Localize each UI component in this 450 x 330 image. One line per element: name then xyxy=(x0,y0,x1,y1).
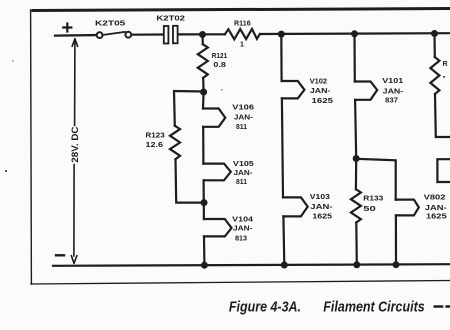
wire V104 to bottom bus xyxy=(203,236,206,265)
relay contact K2T05 xyxy=(95,21,131,38)
svg-text:JAN-: JAN- xyxy=(310,204,333,211)
wire V101 to junction xyxy=(355,100,356,159)
node - (negative terminal) xyxy=(56,254,64,256)
scan speckles xyxy=(5,60,445,172)
node junction V104 column bottom xyxy=(201,262,208,269)
tube filament V101 JAN-837 xyxy=(355,82,377,100)
node junction top of R121 xyxy=(199,31,206,38)
wire junction to R133 xyxy=(355,159,358,190)
wire V101 column top xyxy=(353,34,355,82)
svg-text:811: 811 xyxy=(236,124,247,131)
resistor R133 value 50 xyxy=(351,189,384,222)
svg-text:V106: V106 xyxy=(232,105,254,112)
svg-text:K2T05: K2T05 xyxy=(95,21,125,28)
node + (positive 28V terminal) xyxy=(63,24,71,32)
svg-text:JAN-: JAN- xyxy=(234,170,254,177)
annotation arrow 28V DC xyxy=(71,39,77,263)
wire R133 to bottom bus xyxy=(355,223,358,265)
svg-text:V104: V104 xyxy=(232,217,253,224)
svg-text:1625: 1625 xyxy=(312,98,334,105)
resistor R (partially cut off) xyxy=(430,57,447,94)
wire top bus left segment xyxy=(55,34,96,37)
tube filament V103 JAN-1625 xyxy=(283,197,308,216)
wire V102 to V103 xyxy=(282,98,283,197)
svg-text:K2T02: K2T02 xyxy=(156,16,185,23)
node junction below V105 xyxy=(201,199,208,206)
wire V105 to V104 xyxy=(203,180,205,219)
svg-text:V802: V802 xyxy=(424,194,446,201)
svg-text:1625: 1625 xyxy=(426,214,447,221)
wire V802 to bottom bus xyxy=(395,215,397,264)
caption Figure 4-3A. Filament Circuits xyxy=(229,299,425,316)
svg-text:JAN-: JAN- xyxy=(425,205,448,212)
svg-text:JAN-: JAN- xyxy=(233,225,253,232)
svg-text:R123: R123 xyxy=(146,133,165,140)
node junction R133 column bottom xyxy=(353,261,360,268)
svg-text:JAN-: JAN- xyxy=(234,114,254,121)
svg-text:0.8: 0.8 xyxy=(213,62,226,69)
svg-text:Filament Circuits: Filament Circuits xyxy=(323,299,424,316)
wire branch junction to V802 xyxy=(356,159,396,200)
resistor R123 value 12.6 xyxy=(146,126,181,159)
wire V106 to V105 xyxy=(202,127,204,164)
wire branch to R123 xyxy=(174,91,204,126)
resistor R116 value 1 xyxy=(225,21,260,49)
svg-text:837: 837 xyxy=(385,98,398,105)
node junction right R column top xyxy=(431,30,438,37)
svg-text:JAN-: JAN- xyxy=(310,88,331,95)
node junction V102 column top xyxy=(278,31,285,38)
svg-text:V101: V101 xyxy=(382,78,403,85)
node junction V802 column bottom xyxy=(393,261,400,268)
wire K2T02 to R116 xyxy=(179,33,225,35)
wire top bus right segment xyxy=(260,32,450,35)
node junction V101/R133/V802 xyxy=(353,155,360,162)
svg-text:813: 813 xyxy=(235,236,247,243)
node junction V103 column bottom xyxy=(281,262,288,269)
svg-text:V105: V105 xyxy=(233,161,254,168)
wire R123 bottom return xyxy=(176,159,205,202)
tube filament V104 JAN-813 xyxy=(204,219,232,236)
wire V103 to bottom bus xyxy=(282,216,285,265)
svg-text:Figure 4-3A.: Figure 4-3A. xyxy=(229,299,301,316)
wire right R column top xyxy=(433,34,435,58)
svg-text:R116: R116 xyxy=(234,21,251,28)
wire V106 column top xyxy=(202,92,205,109)
svg-text:R: R xyxy=(443,61,448,68)
svg-text:JAN-: JAN- xyxy=(383,88,404,95)
svg-text:50: 50 xyxy=(363,206,376,213)
svg-text:1: 1 xyxy=(240,42,244,49)
svg-text:R133: R133 xyxy=(363,196,383,203)
tube filament V105 JAN-811 xyxy=(203,164,230,181)
wire right R column to edge xyxy=(435,94,450,137)
svg-text:28V. DC: 28V. DC xyxy=(70,126,80,163)
connector box (cut off at edge) xyxy=(437,159,450,182)
svg-text:V102: V102 xyxy=(310,78,328,85)
svg-text:811: 811 xyxy=(236,179,247,186)
svg-text:12.6: 12.6 xyxy=(146,142,164,149)
svg-text:1625: 1625 xyxy=(312,214,332,221)
svg-text:R121: R121 xyxy=(212,53,228,60)
svg-text:V103: V103 xyxy=(310,194,330,201)
node junction bottom of R121 xyxy=(200,89,207,96)
tube filament V802 JAN-1625 xyxy=(396,200,419,216)
node junction V101 column top xyxy=(351,30,358,37)
wire V102 column top xyxy=(280,34,283,81)
wire bottom bus xyxy=(53,264,450,266)
resistor R121 value 0.8 xyxy=(198,35,227,93)
wire between K2T05 and K2T02 xyxy=(132,33,163,35)
tube filament V102 JAN-1625 xyxy=(282,81,305,98)
relay contact K2T02 xyxy=(156,16,185,44)
tube filament V106 JAN-811 xyxy=(203,109,225,127)
